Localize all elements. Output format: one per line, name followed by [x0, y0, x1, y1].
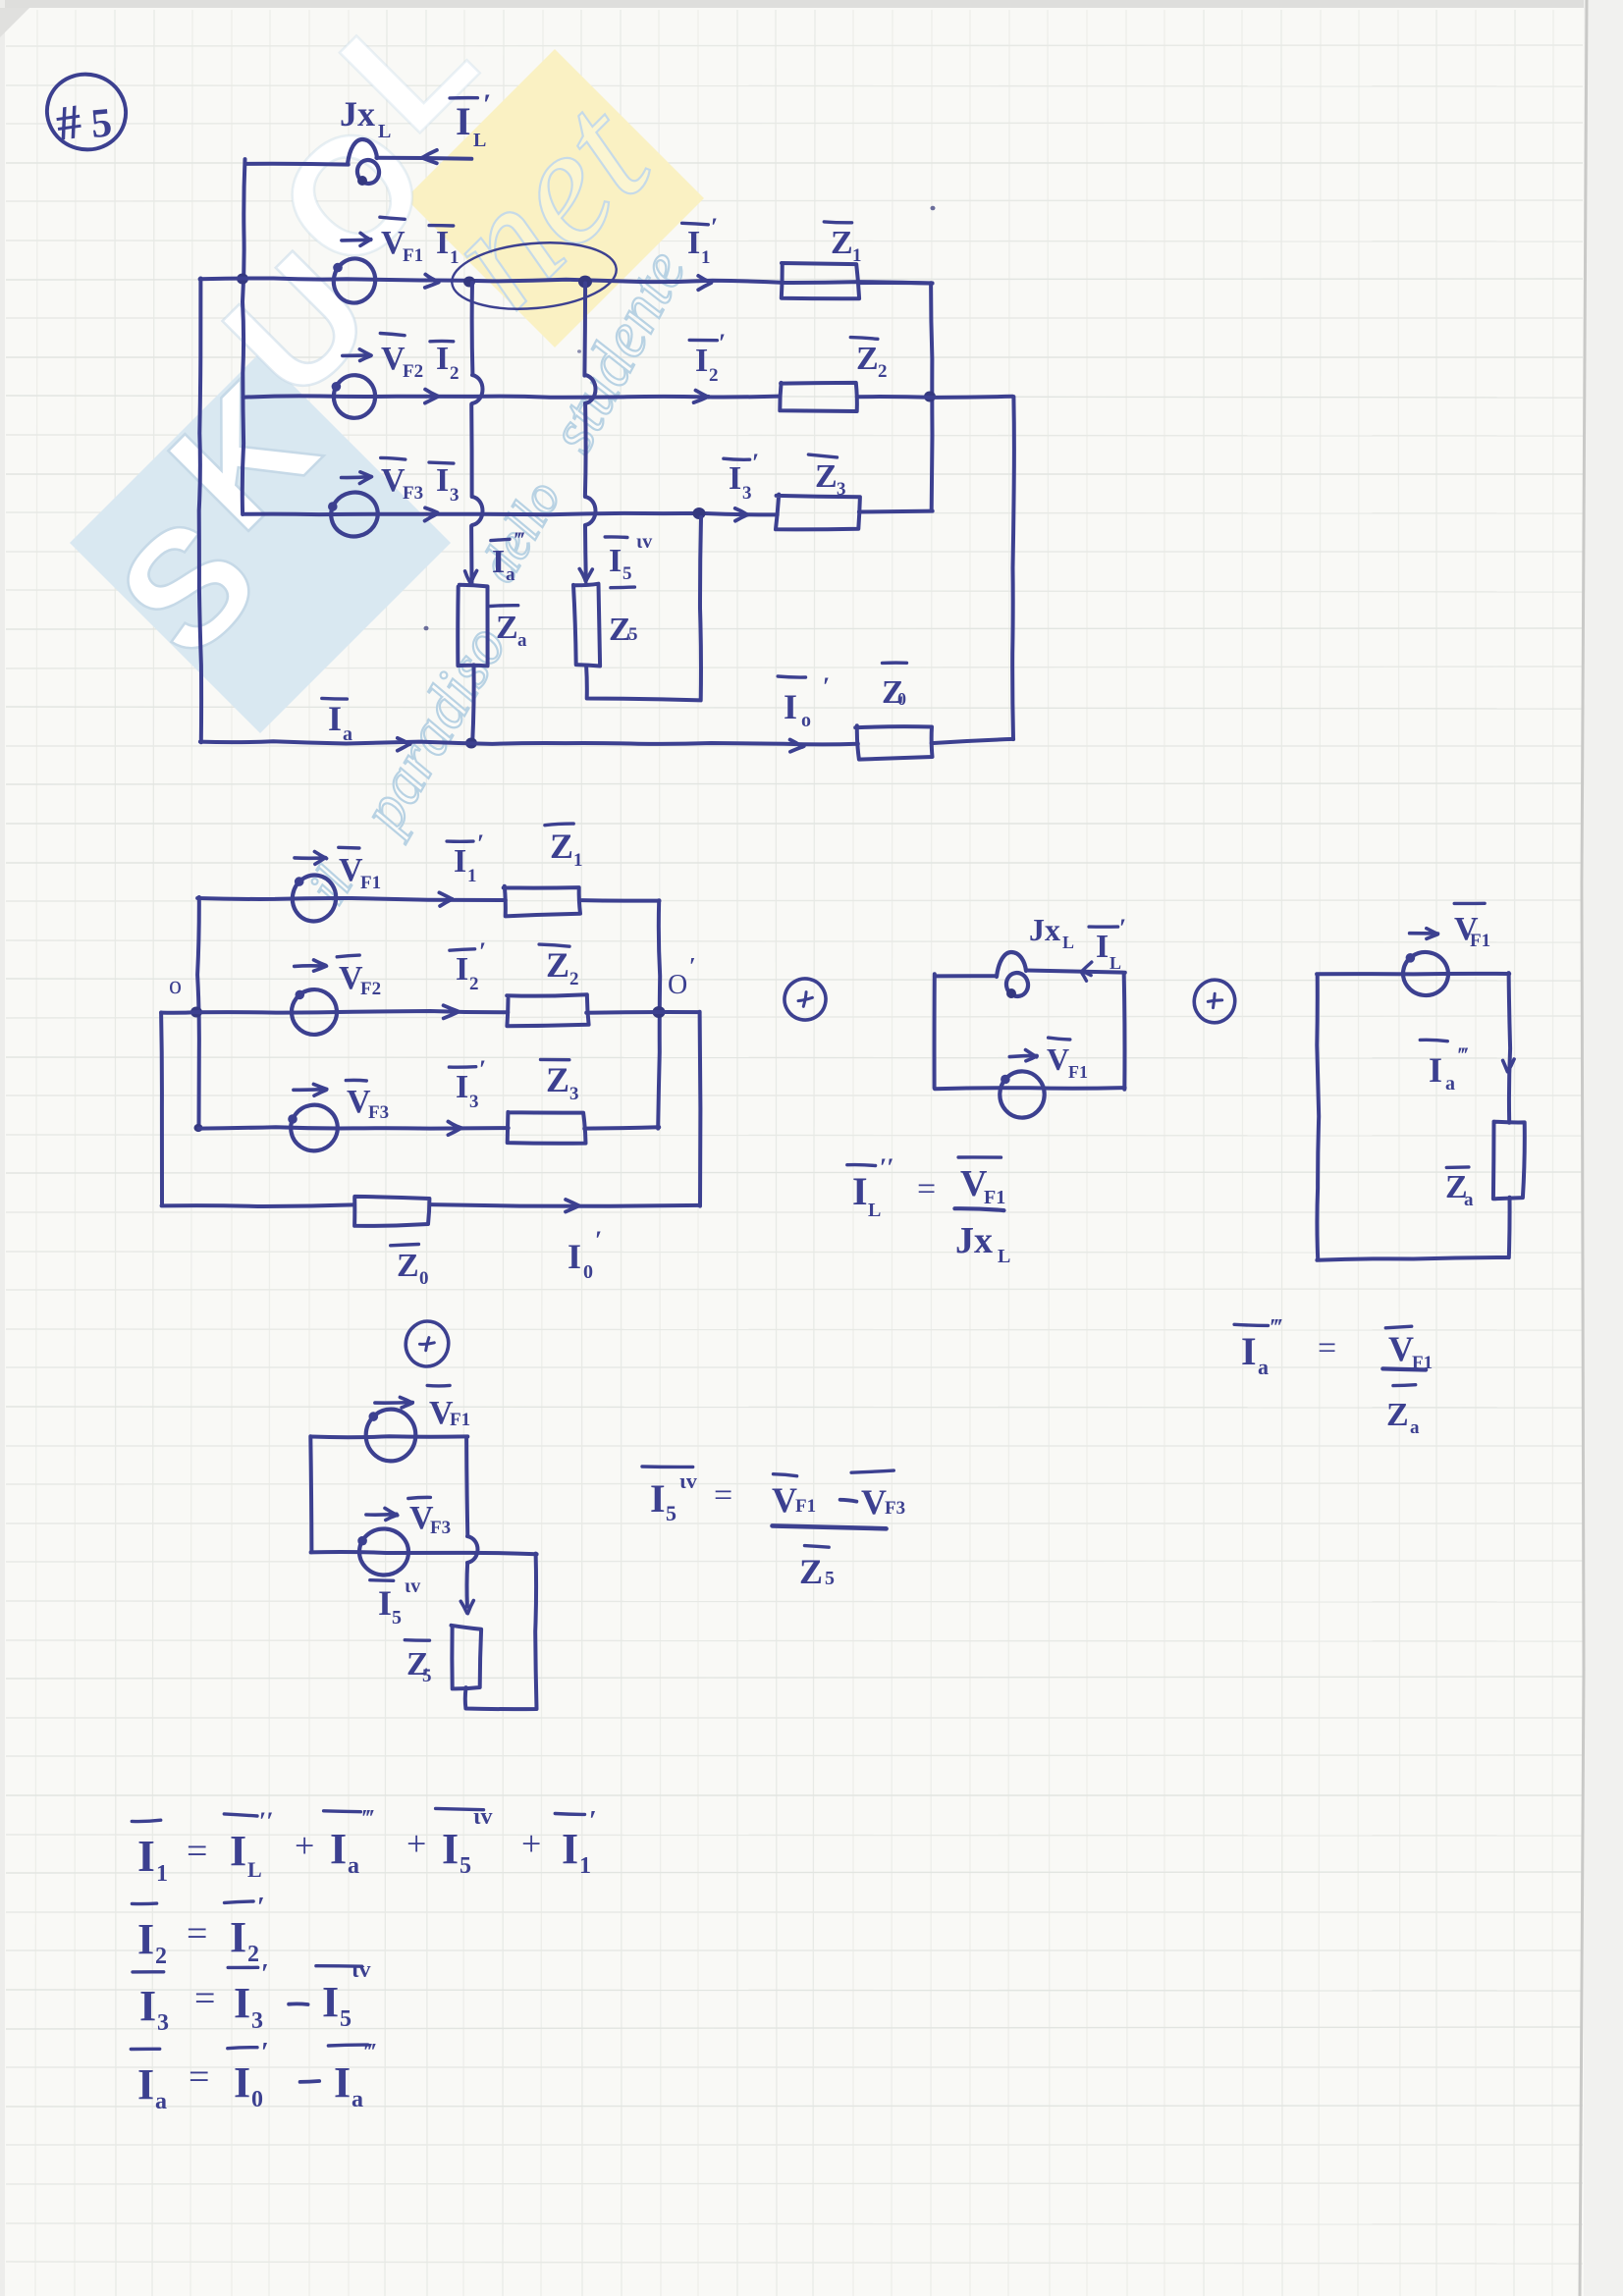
svg-text:a: a [155, 2089, 167, 2114]
svg-text:1: 1 [156, 1861, 168, 1887]
svg-text:a: a [517, 630, 527, 651]
svg-text:I: I [456, 99, 471, 143]
svg-text:Z: Z [550, 827, 573, 866]
svg-text:I: I [456, 1069, 468, 1105]
svg-text:a: a [506, 564, 515, 585]
svg-text:0: 0 [583, 1261, 593, 1283]
svg-text:I: I [436, 462, 449, 499]
svg-text:Z: Z [1386, 1397, 1409, 1433]
svg-text:2: 2 [709, 365, 719, 386]
svg-text:F1: F1 [403, 245, 423, 266]
svg-text:I: I [230, 1827, 246, 1875]
svg-text:1: 1 [450, 247, 460, 268]
svg-text:3: 3 [742, 483, 752, 504]
svg-text:3: 3 [469, 1092, 479, 1112]
svg-text:ιv: ιv [473, 1804, 492, 1830]
svg-text:I: I [784, 687, 797, 726]
svg-text:I: I [436, 225, 449, 261]
svg-text:Z: Z [397, 1248, 419, 1284]
svg-text:+: + [295, 1826, 314, 1865]
svg-text:a: a [343, 723, 352, 745]
svg-text:I: I [378, 1583, 392, 1623]
svg-text:I: I [139, 1982, 156, 2030]
svg-text:1: 1 [573, 850, 583, 871]
svg-text:o: o [801, 710, 811, 731]
svg-text:I: I [1241, 1329, 1257, 1373]
svg-text:′′: ′′ [880, 1153, 894, 1182]
svg-text:0: 0 [897, 689, 906, 709]
svg-text:F1: F1 [1470, 931, 1490, 951]
svg-text:2: 2 [878, 361, 888, 382]
svg-text:Jx: Jx [955, 1220, 993, 1261]
svg-text:Z: Z [815, 458, 838, 495]
svg-text:L: L [1062, 933, 1074, 952]
svg-text:=: = [917, 1171, 936, 1207]
svg-text:I: I [852, 1169, 868, 1213]
svg-text:′: ′ [719, 329, 726, 357]
svg-text:L: L [1109, 953, 1121, 973]
svg-text:1: 1 [579, 1853, 591, 1879]
svg-text:5: 5 [825, 1568, 835, 1589]
svg-text:3: 3 [450, 485, 460, 506]
svg-text:0: 0 [251, 2087, 263, 2112]
svg-text:3: 3 [157, 2010, 169, 2036]
svg-text:a: a [352, 2087, 363, 2112]
svg-text:I: I [234, 1979, 250, 2027]
svg-text:I: I [695, 343, 708, 379]
svg-text:Z: Z [831, 225, 853, 261]
svg-text:′: ′ [479, 1055, 486, 1084]
svg-text:ιv: ιv [405, 1575, 420, 1597]
svg-text:Jx: Jx [1029, 912, 1060, 947]
svg-text:o: o [169, 971, 182, 999]
svg-text:=: = [714, 1477, 732, 1514]
svg-text:ιv: ιv [352, 1957, 370, 1983]
svg-text:′: ′ [483, 88, 491, 121]
svg-text:′: ′ [1119, 914, 1126, 942]
svg-text:F1: F1 [360, 873, 381, 893]
svg-text:′: ′ [823, 672, 830, 701]
svg-text:′: ′ [711, 213, 718, 241]
svg-text:′: ′ [477, 829, 484, 858]
svg-text:=: = [187, 1913, 207, 1954]
svg-text:Z: Z [496, 610, 518, 646]
svg-text:5: 5 [89, 100, 114, 147]
svg-text:=: = [1318, 1330, 1336, 1366]
svg-text:5: 5 [392, 1607, 402, 1629]
svg-text:I: I [334, 2058, 351, 2107]
svg-text:I: I [234, 2058, 250, 2107]
svg-text:3: 3 [569, 1084, 579, 1104]
svg-text:=: = [187, 1831, 207, 1872]
svg-text:5: 5 [460, 1853, 471, 1879]
svg-text:′: ′ [257, 1893, 265, 1923]
svg-text:=: = [194, 1978, 215, 2019]
svg-text:F1: F1 [795, 1496, 816, 1517]
svg-text:a: a [1410, 1417, 1420, 1438]
svg-text:5: 5 [628, 624, 638, 645]
svg-text:I: I [456, 951, 468, 988]
svg-text:I: I [1096, 929, 1109, 965]
svg-text:F3: F3 [885, 1498, 905, 1519]
svg-text:a: a [1258, 1355, 1269, 1379]
svg-text:F3: F3 [368, 1102, 389, 1123]
svg-text:5: 5 [422, 1666, 432, 1686]
svg-text:′: ′ [261, 1959, 269, 1990]
svg-text:I: I [687, 225, 700, 261]
svg-text:O: O [668, 970, 687, 1000]
svg-text:a: a [1464, 1190, 1474, 1210]
svg-text:Z: Z [546, 945, 569, 985]
svg-text:Z: Z [799, 1552, 823, 1591]
svg-text:=: = [189, 2056, 209, 2098]
svg-text:5: 5 [622, 563, 632, 584]
svg-text:I: I [1429, 1050, 1442, 1090]
svg-text:ιv: ιv [636, 531, 652, 553]
svg-text:Jx: Jx [340, 94, 375, 133]
svg-text:′: ′ [595, 1226, 602, 1255]
svg-text:L: L [378, 121, 391, 142]
svg-text:F2: F2 [403, 361, 423, 382]
svg-text:2: 2 [569, 969, 579, 989]
svg-text:F1: F1 [984, 1187, 1005, 1208]
svg-text:I: I [137, 1915, 154, 1963]
svg-text:3: 3 [251, 2008, 263, 2034]
svg-text:I: I [442, 1825, 459, 1873]
svg-text:Z: Z [546, 1060, 569, 1099]
svg-text:ιv: ιv [679, 1468, 697, 1493]
svg-text:5: 5 [666, 1501, 676, 1525]
svg-text:Z: Z [856, 341, 879, 377]
svg-text:V: V [1388, 1329, 1414, 1368]
svg-text:a: a [348, 1853, 359, 1879]
svg-text:+: + [406, 1824, 426, 1863]
svg-text:2: 2 [450, 363, 460, 384]
svg-text:I: I [609, 543, 622, 579]
svg-text:F1: F1 [450, 1410, 470, 1430]
svg-text:I: I [137, 1831, 155, 1881]
svg-text:I: I [330, 1825, 347, 1873]
svg-text:+: + [521, 1824, 541, 1863]
svg-text:L: L [998, 1246, 1010, 1267]
svg-text:2: 2 [247, 1942, 259, 1967]
svg-text:a: a [1445, 1073, 1455, 1095]
svg-text:′′: ′′ [259, 1807, 274, 1836]
svg-text:F3: F3 [403, 483, 423, 504]
svg-text:′: ′ [589, 1806, 597, 1837]
svg-text:1: 1 [852, 245, 862, 266]
svg-text:I: I [729, 460, 741, 497]
svg-text:2: 2 [469, 974, 479, 994]
svg-text:I: I [492, 544, 505, 580]
svg-text:I: I [328, 699, 342, 738]
svg-text:L: L [868, 1200, 881, 1221]
svg-text:′: ′ [689, 954, 696, 980]
svg-text:F2: F2 [360, 979, 381, 999]
svg-text:I: I [650, 1476, 666, 1521]
svg-text:F1: F1 [1068, 1062, 1088, 1082]
svg-text:′: ′ [752, 449, 759, 477]
svg-text:I: I [322, 1978, 339, 2026]
svg-text:L: L [247, 1857, 262, 1882]
svg-text:′: ′ [479, 937, 486, 966]
svg-text:F3: F3 [430, 1518, 451, 1538]
svg-text:0: 0 [419, 1268, 429, 1289]
svg-text:V: V [1047, 1041, 1069, 1077]
svg-text:V: V [861, 1482, 887, 1522]
svg-text:L: L [473, 130, 486, 151]
svg-text:1: 1 [701, 247, 711, 268]
svg-text:V: V [772, 1480, 797, 1520]
svg-text:I: I [562, 1825, 578, 1873]
svg-text:5: 5 [340, 2006, 352, 2032]
svg-text:I: I [436, 341, 449, 377]
svg-text:I: I [454, 843, 466, 880]
svg-text:I: I [230, 1913, 246, 1961]
svg-text:′: ′ [261, 2038, 269, 2068]
svg-text:2: 2 [155, 1944, 167, 1969]
svg-text:1: 1 [467, 866, 477, 886]
svg-text:3: 3 [837, 479, 846, 500]
svg-text:I: I [568, 1237, 581, 1276]
svg-text:I: I [137, 2060, 154, 2109]
